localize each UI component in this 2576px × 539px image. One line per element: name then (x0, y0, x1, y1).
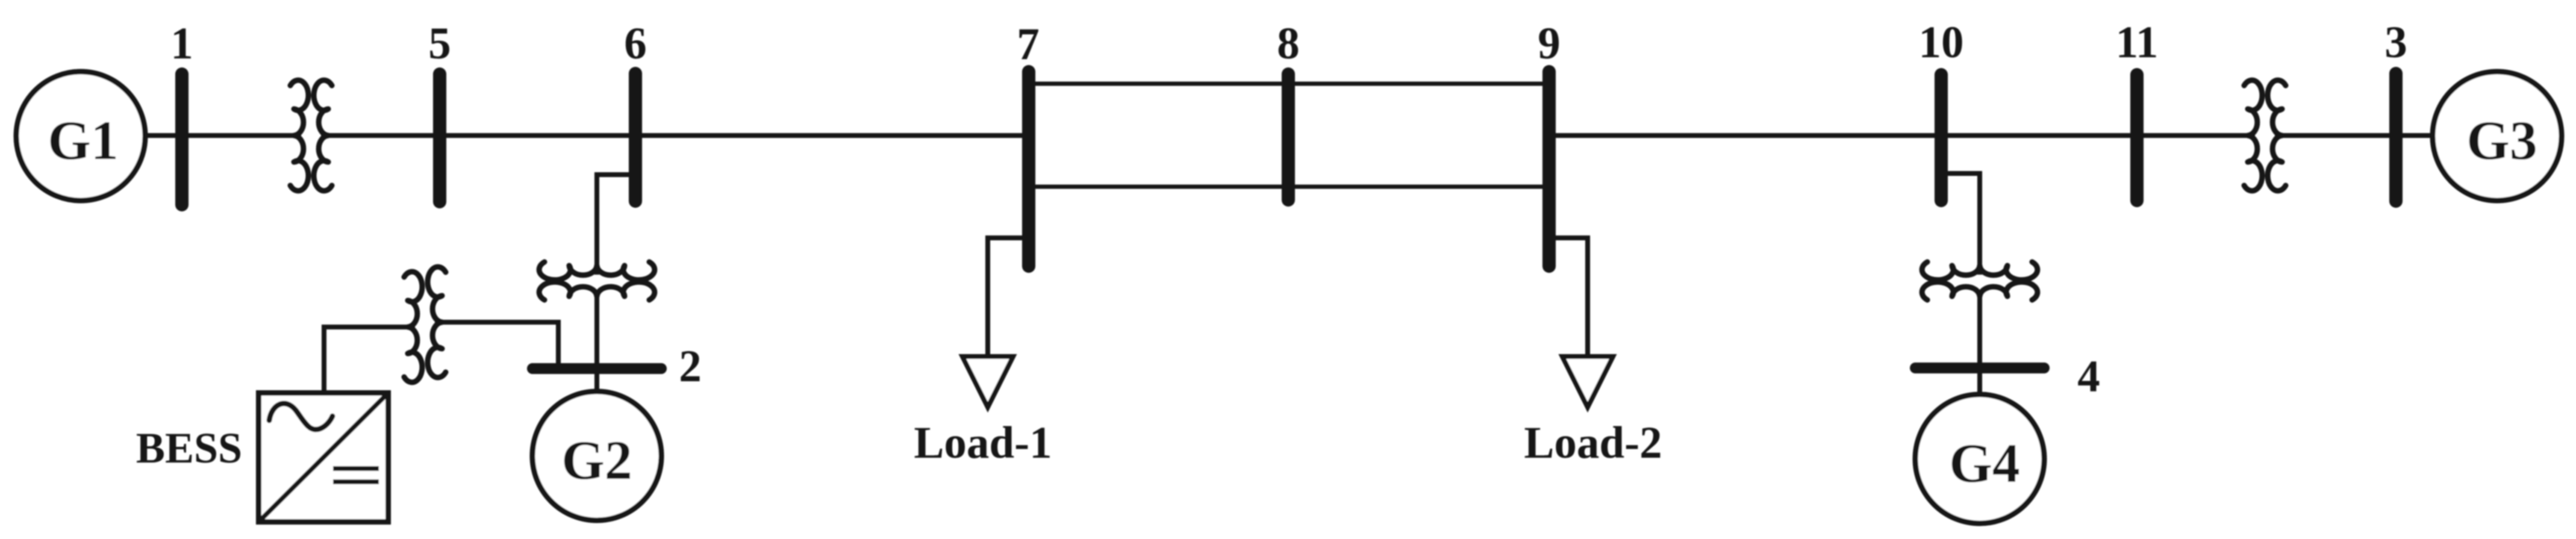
BESS coupling transformer left winding (404, 272, 422, 382)
bus 7 bar (1022, 72, 1035, 266)
svg-text:2: 2 (679, 341, 702, 391)
svg-text:4: 4 (2077, 352, 2100, 402)
transformer T4 (bus10-bus4) upper winding (1922, 262, 2038, 280)
svg-text:G2: G2 (561, 429, 632, 491)
bus 3 bar (2389, 73, 2403, 201)
svg-text:G3: G3 (2466, 110, 2537, 171)
bus 4 bar (1915, 363, 2044, 373)
transformer T1 (bus1-bus5) right winding (314, 80, 332, 191)
svg-text:3: 3 (2384, 17, 2407, 67)
BESS converter DC bars (333, 469, 379, 482)
wire main line G1 to transformer T1 left winding (81, 133, 301, 138)
BESS converter AC sine symbol (269, 403, 332, 429)
bus 2 bar (532, 363, 661, 374)
wire transformer T2 down through bus 2 to generator G2 (594, 291, 599, 422)
svg-text:Load-1: Load-1 (914, 418, 1052, 468)
transformer T2 (bus6-bus2) lower winding (539, 282, 655, 300)
Load-1 arrow (962, 357, 1013, 407)
generator G2 circle (532, 391, 661, 520)
wire main line bus 9 to transformer T3 left winding (1549, 133, 2255, 138)
wire bus 9 branch to Load-2 (1549, 238, 1588, 355)
svg-text:9: 9 (1538, 19, 1561, 69)
transformer T2 (bus6-bus2) upper winding (539, 262, 655, 280)
svg-text:1: 1 (170, 19, 193, 69)
Load-2 arrow (1562, 357, 1613, 407)
generator G4 circle (1915, 394, 2044, 523)
wire bus 10 branch down to transformer T4 (1941, 173, 1980, 275)
wire bus 6 branch down to transformer T2 (597, 175, 635, 275)
transformer T1 (bus1-bus5) left winding (290, 80, 308, 191)
BESS converter box (259, 393, 388, 522)
wire transformer T4 down through bus 4 to generator G4 (1977, 291, 1982, 422)
bus 1 bar (175, 74, 189, 205)
svg-text:G4: G4 (1949, 432, 2020, 494)
generator G3 circle (2433, 72, 2562, 201)
svg-text:7: 7 (1017, 19, 1040, 69)
bus 5 bar (433, 74, 446, 202)
BESS converter diagonal (260, 394, 387, 521)
bus 8 bar (1282, 74, 1295, 200)
svg-text:6: 6 (624, 19, 647, 69)
bus 6 bar (629, 73, 642, 201)
svg-text:Load-2: Load-2 (1524, 418, 1662, 468)
wire main line transformer T3 to generator G3 (2275, 133, 2497, 138)
bus 10 bar (1935, 75, 1948, 201)
wire BESS converter up and right to BESS transformer (324, 327, 415, 410)
bus 9 bar (1542, 72, 1556, 266)
wire bus 7 branch to Load-1 (988, 238, 1029, 355)
transformer T3 (bus11-bus3) left winding (2244, 80, 2262, 191)
transformer T3 (bus11-bus3) right winding (2268, 80, 2286, 191)
wire main line transformer T1 to bus 7 (321, 133, 1029, 138)
bus 11 bar (2130, 75, 2144, 201)
svg-text:11: 11 (2116, 17, 2159, 67)
svg-text:G1: G1 (48, 110, 119, 171)
wire transmission line 7-8-9 upper circuit (1029, 82, 1549, 86)
BESS coupling transformer right winding (428, 267, 446, 378)
svg-text:BESS: BESS (136, 424, 242, 472)
generator G1 circle (16, 72, 145, 201)
svg-text:10: 10 (1919, 17, 1964, 67)
svg-text:8: 8 (1277, 19, 1300, 69)
transformer T4 (bus10-bus4) lower winding (1922, 282, 2038, 300)
wire BESS transformer right then down to bus 2 (435, 322, 558, 366)
svg-text:5: 5 (428, 19, 451, 69)
wire transmission line 7-8-9 lower circuit (1029, 185, 1549, 189)
